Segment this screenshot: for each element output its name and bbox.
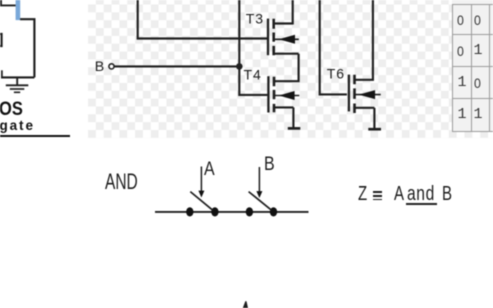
actuator arrow B (256, 167, 262, 198)
svg-text:T6: T6 (327, 65, 345, 81)
wire B to T4 gate (239, 66, 267, 95)
equation Z = A and B (358, 183, 367, 206)
contact dot 2 (211, 207, 218, 216)
wire bottom rail (1, 76, 34, 78)
switch lever B (249, 192, 272, 211)
rule under caption (0, 135, 70, 138)
AND switch wire (155, 211, 309, 213)
wire T6 source to ground (373, 108, 375, 128)
contact dot 4 (270, 207, 277, 216)
transistor T6 (349, 75, 381, 113)
node B wire from top (238, 0, 240, 66)
ground (earth, 3 bars) (6, 77, 29, 92)
ground (T4) (288, 127, 301, 130)
checkerboard transparency background (88, 0, 493, 138)
svg-text:T4: T4 (244, 66, 262, 82)
caption "OS" (CMOS, cut at edge) (0, 98, 23, 121)
ground (T6) (368, 128, 381, 131)
svg-text:B: B (95, 59, 104, 75)
truth table grid (451, 4, 454, 131)
truth table digits (457, 12, 464, 28)
label A (switch) (204, 159, 215, 181)
wire T3 source to T4 drain (275, 54, 299, 81)
contact dot 1 (186, 207, 193, 216)
wire T4 source to ground (292, 107, 294, 127)
output node wire (blue) (16, 0, 21, 20)
heading letter A (cut at bottom edge) (238, 300, 254, 308)
contact dot 3 (246, 207, 253, 216)
transistor T5 channel (cut at left edge) (0, 33, 2, 47)
wire (cut top-left corner) (0, 0, 16, 6)
actuator arrow A (198, 167, 204, 198)
wire stub at left edge (1, 70, 3, 77)
wire node B horizontal (114, 65, 239, 67)
junction B (236, 63, 243, 70)
switch lever A (190, 192, 212, 211)
node A wire from top to T3 gate (138, 0, 267, 39)
transistor T4 (268, 76, 299, 112)
truth table background (452, 0, 493, 131)
wire output to drain rail (20, 19, 34, 77)
label AND (105, 169, 138, 195)
wire T6 drain from top (356, 0, 373, 80)
svg-text:T3: T3 (246, 11, 264, 27)
terminal B circle (109, 64, 114, 69)
caption "gate" (cut at edge) (0, 118, 35, 133)
transistor T3 (268, 0, 299, 55)
label B (switch) (264, 154, 275, 176)
wire T6 gate from top (320, 0, 347, 94)
